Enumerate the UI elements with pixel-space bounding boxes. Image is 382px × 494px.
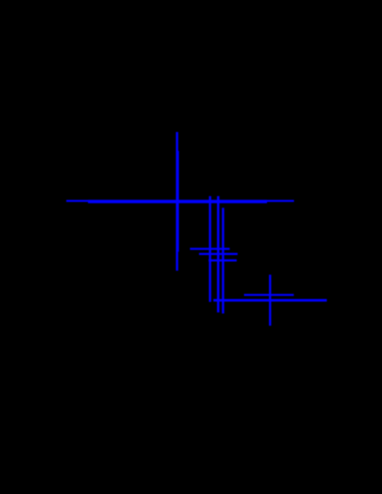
- wire W9 horizontal long bottom: [213, 299, 326, 302]
- wire W10 horizontal: [244, 294, 294, 296]
- wire W5 vertical: [222, 208, 224, 314]
- wire W3 vertical: [209, 196, 211, 302]
- wire W1 vertical main: [176, 132, 178, 271]
- wire W1b vertical main overlap: [176, 151, 179, 252]
- wire W2 horizontal main: [66, 200, 294, 202]
- wire W2b horizontal main overlap: [88, 200, 267, 203]
- wire W11 vertical right: [269, 275, 271, 326]
- wire W6 horizontal stub: [190, 248, 230, 250]
- wire W4 vertical: [217, 196, 219, 312]
- wire W7 horizontal stub: [199, 253, 238, 255]
- wire W8 horizontal stub: [209, 259, 237, 261]
